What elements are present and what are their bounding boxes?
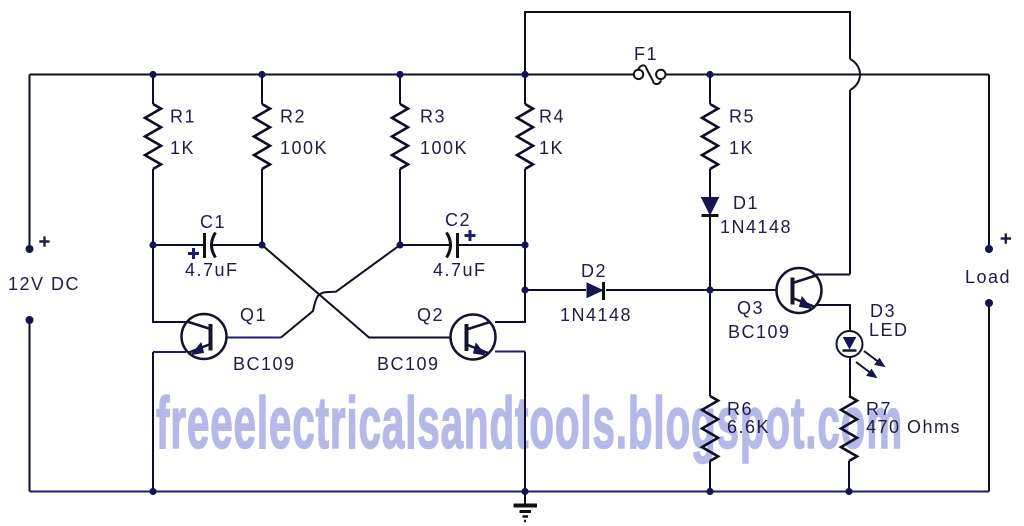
svg-text:R5: R5 — [729, 107, 755, 127]
wire R4 bottom to C2 node — [524, 169, 526, 245]
svg-text:1K: 1K — [539, 138, 564, 158]
svg-text:470 Ohms: 470 Ohms — [866, 417, 961, 437]
wire Q1 base stub — [227, 337, 282, 339]
resistor R7 — [841, 396, 857, 461]
node top rail R1 — [149, 71, 156, 78]
resistor R4 — [517, 104, 533, 169]
svg-text:R3: R3 — [420, 107, 446, 127]
svg-text:F1: F1 — [634, 44, 658, 64]
transistor Q2 — [451, 315, 496, 360]
wire Q2 emitter to ground column — [495, 351, 525, 353]
svg-text:R1: R1 — [170, 107, 196, 127]
node top rail R3 — [396, 71, 403, 78]
wire top rail right of fuse — [665, 74, 989, 76]
svg-text:R6: R6 — [727, 399, 753, 419]
svg-text:1N4148: 1N4148 — [720, 217, 792, 237]
node battery - terminal — [26, 316, 34, 324]
label battery plus — [39, 236, 49, 246]
wire R3 bottom to C2 node — [399, 169, 401, 245]
ground — [514, 492, 538, 522]
wire D2 node down to R6 — [709, 290, 711, 396]
wire right vertical bottom (load -) — [988, 303, 990, 492]
node bottom rail R7 — [845, 488, 852, 495]
wire Q1 emitter column to bottom rail — [152, 352, 154, 492]
wire cross-coupling C1 node to Q2 base — [262, 245, 451, 338]
svg-text:BC109: BC109 — [233, 354, 296, 374]
diode D2 — [587, 282, 604, 300]
wire left vertical bottom (battery -) — [29, 320, 31, 492]
wire R3 column upper — [399, 75, 401, 105]
wire top rail left of fuse — [30, 74, 634, 76]
node C1 left — [149, 241, 156, 248]
svg-text:Load: Load — [965, 267, 1011, 287]
wire C1 right to R2 node — [213, 244, 262, 246]
node D2 left — [521, 286, 528, 293]
node bottom rail Q1 — [149, 488, 156, 495]
capacitor C1 — [188, 233, 216, 260]
wire right vertical top (load +) — [988, 75, 990, 250]
svg-text:Q1: Q1 — [240, 305, 267, 325]
svg-text:R2: R2 — [280, 107, 306, 127]
wire R2 bottom to C1 node — [261, 169, 263, 245]
wire R7 bottom to rail — [848, 461, 850, 492]
node bottom rail R6 — [706, 488, 713, 495]
label load plus — [1001, 233, 1011, 243]
transistor Q3 — [777, 268, 822, 313]
node D1/D2 junction — [706, 286, 713, 293]
svg-text:Q2: Q2 — [417, 305, 444, 325]
wire hop over top rail — [850, 59, 860, 90]
node top rail R2 — [258, 71, 265, 78]
wire C2 right to R4 node — [458, 244, 526, 246]
wire top bypass loop — [525, 12, 850, 75]
wire C2 node down to D2 node — [524, 245, 526, 290]
node C2 left — [396, 241, 403, 248]
svg-text:12V DC: 12V DC — [8, 274, 80, 294]
svg-text:100K: 100K — [280, 138, 328, 158]
wire R6 bottom to rail — [709, 461, 711, 492]
wire Q2 emitter column to bottom rail — [524, 352, 526, 492]
wire R1 node down to Q1 collector — [153, 245, 186, 322]
svg-text:C1: C1 — [200, 212, 226, 232]
svg-text:C2: C2 — [445, 210, 471, 230]
svg-text:freeelectricalsandtools.blogsp: freeelectricalsandtools.blogspot.com — [156, 383, 903, 464]
wire R2 column upper — [261, 75, 263, 105]
resistor R5 — [702, 104, 718, 169]
svg-text:4.7uF: 4.7uF — [185, 260, 239, 280]
resistor R2 — [254, 104, 270, 169]
svg-text:BC109: BC109 — [728, 322, 791, 342]
svg-text:1N4148: 1N4148 — [560, 305, 632, 325]
svg-text:4.7uF: 4.7uF — [433, 260, 487, 280]
svg-text:1K: 1K — [729, 138, 754, 158]
svg-text:R7: R7 — [866, 399, 892, 419]
resistor R1 — [145, 104, 161, 169]
wire D2 cathode to Q3 base — [606, 289, 777, 291]
node top rail R5 — [706, 71, 713, 78]
node C1 right — [258, 241, 265, 248]
svg-text:1K: 1K — [170, 138, 195, 158]
svg-text:R4: R4 — [539, 107, 565, 127]
wire LED to R7 — [849, 357, 851, 396]
wire bottom rail — [30, 491, 990, 493]
wire bypass vertical down to Q3 collector — [849, 90, 851, 275]
svg-text:LED: LED — [869, 320, 909, 340]
node top rail R4 — [521, 71, 528, 78]
wire D2 from R4 column to diode — [525, 289, 586, 291]
capacitor C2 — [447, 230, 476, 258]
wire R4 column upper — [524, 75, 526, 105]
node load - terminal — [985, 299, 993, 307]
node bottom rail ground — [521, 488, 528, 495]
node load + terminal — [985, 245, 993, 253]
node battery + terminal — [26, 245, 34, 253]
fuse F1 — [634, 65, 666, 84]
svg-text:D3: D3 — [870, 301, 896, 321]
svg-text:100K: 100K — [420, 138, 468, 158]
svg-text:BC109: BC109 — [377, 354, 440, 374]
svg-text:D1: D1 — [733, 193, 759, 213]
wire Q1 emitter to left column — [153, 351, 186, 353]
resistor R6 — [702, 396, 718, 461]
wire D2 node down to Q2 collector — [495, 290, 525, 322]
wire C1 left — [153, 244, 205, 246]
svg-text:6.6K: 6.6K — [727, 417, 770, 437]
wire cross-coupling Q1 base to R3 node with hop — [281, 245, 400, 338]
wire D1 cathode down to D2 node — [709, 216, 711, 290]
wire Q3 emitter to LED column — [816, 305, 850, 331]
svg-text:Q3: Q3 — [737, 298, 764, 318]
wire left vertical top (battery +) — [29, 75, 31, 250]
wire R1 column upper — [152, 75, 154, 105]
svg-text:D2: D2 — [581, 261, 607, 281]
wire C2 left from R3 node — [400, 244, 449, 246]
diode D1 — [702, 198, 719, 216]
transistor Q1 — [182, 314, 227, 359]
resistor R3 — [392, 104, 408, 169]
wire R5 bottom to D1 anode — [709, 169, 711, 198]
node C2 right — [521, 241, 528, 248]
wire Q3 collector to bypass column — [816, 274, 850, 276]
wire R1 bottom to C1 node — [152, 169, 154, 245]
LED D3 — [837, 331, 885, 378]
wire R5 column upper — [709, 75, 711, 105]
